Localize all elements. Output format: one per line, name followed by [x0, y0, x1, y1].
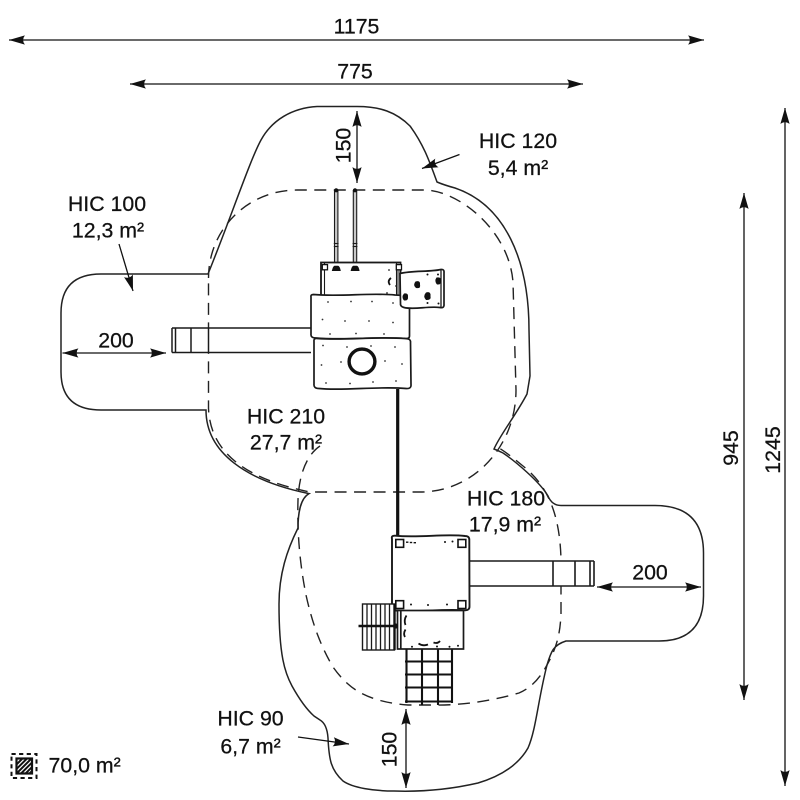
svg-text:6,7 m²: 6,7 m² — [220, 735, 280, 759]
svg-text:HIC 120: HIC 120 — [479, 129, 557, 153]
svg-text:775: 775 — [337, 60, 373, 84]
svg-text:200: 200 — [632, 561, 668, 585]
svg-text:HIC 210: HIC 210 — [247, 405, 325, 429]
svg-text:945: 945 — [719, 430, 743, 466]
svg-text:70,0 m²: 70,0 m² — [49, 754, 121, 778]
svg-text:150: 150 — [332, 128, 356, 164]
svg-text:27,7 m²: 27,7 m² — [250, 431, 322, 455]
svg-text:1175: 1175 — [334, 15, 380, 39]
svg-text:150: 150 — [378, 732, 402, 768]
svg-text:HIC 180: HIC 180 — [467, 487, 545, 511]
svg-text:12,3 m²: 12,3 m² — [72, 219, 144, 243]
svg-text:1245: 1245 — [761, 426, 785, 473]
svg-text:200: 200 — [98, 329, 134, 353]
svg-text:5,4 m²: 5,4 m² — [488, 156, 548, 180]
svg-text:17,9 m²: 17,9 m² — [469, 513, 541, 537]
svg-text:HIC 100: HIC 100 — [68, 192, 146, 216]
svg-text:HIC 90: HIC 90 — [217, 707, 283, 731]
